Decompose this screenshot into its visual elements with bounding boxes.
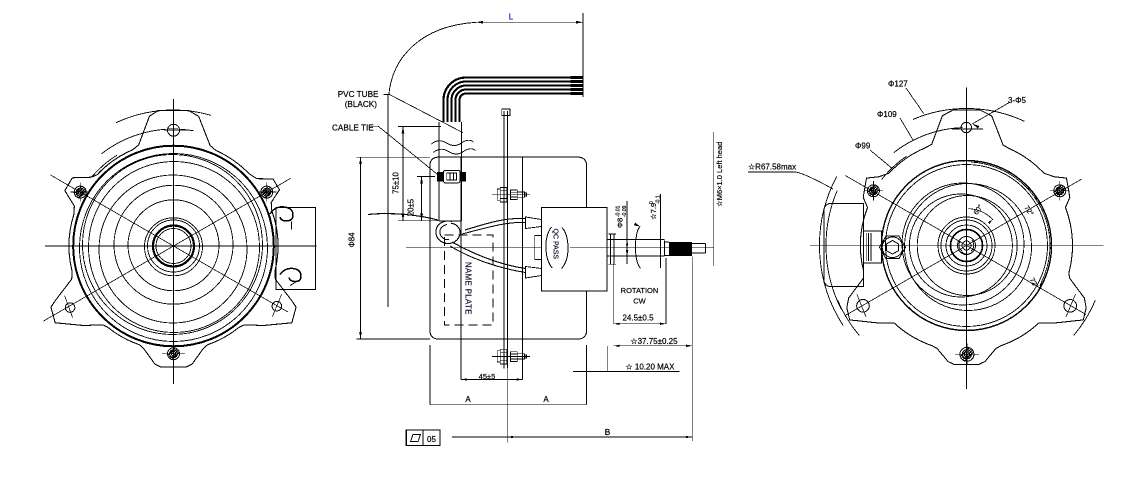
bracket top cap xyxy=(502,109,510,115)
leader phi109 xyxy=(900,118,913,140)
svg-text:A: A xyxy=(465,395,471,404)
svg-text:QC PASS: QC PASS xyxy=(552,229,559,260)
svg-text:-0.1: -0.1 xyxy=(656,195,662,204)
bottom left arc frag xyxy=(838,300,860,335)
motor rim bold circle xyxy=(73,146,274,347)
svg-text:05: 05 xyxy=(427,435,436,444)
cable tie: right block xyxy=(460,172,466,182)
svg-text:☆7.9: ☆7.9 xyxy=(649,203,658,220)
leader R67.58 xyxy=(748,171,796,173)
svg-text:A: A xyxy=(543,395,549,404)
rear hole 210 xyxy=(857,300,870,313)
corner hole 210 xyxy=(65,303,75,313)
leader PVC tube xyxy=(384,94,391,96)
top ear hole xyxy=(168,124,180,136)
10.20 dim xyxy=(606,346,608,372)
motor body rounded rect xyxy=(430,157,587,339)
svg-text:Φ109: Φ109 xyxy=(877,110,897,119)
dim 75+-10 xyxy=(402,127,404,221)
rear mid circles xyxy=(909,194,1012,297)
rear body bold circle xyxy=(882,161,1052,331)
dim 20+-5 xyxy=(421,177,423,221)
svg-text:Φ99: Φ99 xyxy=(855,142,871,151)
mystery vertical extension line xyxy=(387,95,389,307)
L dimension line xyxy=(476,21,583,23)
svg-text:CABLE TIE: CABLE TIE xyxy=(332,124,374,133)
shaft centerline xyxy=(406,247,541,249)
L dimension right extension xyxy=(582,13,584,97)
diagonal centerline 30-210 xyxy=(44,179,291,322)
svg-text:CW: CW xyxy=(633,297,646,306)
rear hole 330 xyxy=(1064,300,1077,313)
diagonal 30-210 right view xyxy=(845,179,1081,316)
45 dim extension lines xyxy=(460,157,462,379)
rear hub circles xyxy=(938,217,995,274)
svg-text:☆R67.58max: ☆R67.58max xyxy=(748,162,796,171)
shaft center detail xyxy=(958,237,976,255)
rotation arrow ellipse xyxy=(635,227,640,269)
dim phi84 xyxy=(360,157,362,339)
svg-text:ROTATION: ROTATION xyxy=(621,286,659,295)
bolt at 270 deg xyxy=(168,348,180,360)
phi127 arc xyxy=(913,108,1024,121)
svg-text:(BLACK): (BLACK) xyxy=(345,100,378,109)
B dim line xyxy=(452,436,692,438)
centerline vertical right view xyxy=(966,88,968,390)
capacitor bracket xyxy=(864,231,882,263)
svg-text:0: 0 xyxy=(649,201,655,204)
all text labels xyxy=(332,13,1040,444)
svg-text:75±10: 75±10 xyxy=(392,172,401,194)
centerline over stator block xyxy=(570,247,714,249)
svg-text:☆M6×1.0 Left head: ☆M6×1.0 Left head xyxy=(715,142,724,207)
leader cable tie xyxy=(371,125,379,127)
centerline horizontal left view xyxy=(45,245,317,247)
name plate dashed rect xyxy=(445,235,494,325)
wire to upper terminal xyxy=(465,218,526,230)
svg-text:-0.09: -0.09 xyxy=(622,205,628,217)
bolt-circle arc fragments left view xyxy=(116,110,211,123)
diagonal centerline 150-330 xyxy=(51,175,288,312)
svg-text:Φ84: Φ84 xyxy=(348,232,357,248)
flange star outline left xyxy=(51,111,296,368)
terminal bracket right of left view xyxy=(276,208,315,290)
terminal lower xyxy=(526,267,542,279)
svg-text:☆37.75±0.25: ☆37.75±0.25 xyxy=(630,337,678,346)
phi109 arc xyxy=(894,128,963,153)
svg-text:20±5: 20±5 xyxy=(407,198,416,216)
svg-text:B: B xyxy=(605,427,611,437)
pvc tube outline xyxy=(438,122,440,221)
capacitor box xyxy=(824,203,864,286)
tube break waves xyxy=(432,140,474,145)
svg-text:45±5: 45±5 xyxy=(479,372,496,381)
A dim box xyxy=(429,345,431,405)
phi99 arc xyxy=(882,156,907,179)
cable tie: left block xyxy=(437,172,443,182)
left view: motor front face xyxy=(44,99,317,384)
angle dim arc 60/72 xyxy=(968,209,993,220)
rear top hole xyxy=(961,122,971,132)
bracket bolt bottom xyxy=(497,351,500,362)
body top edge extension to dim xyxy=(357,156,431,158)
bearing retainer plate xyxy=(610,234,612,264)
svg-text:☆ 10.20 MAX: ☆ 10.20 MAX xyxy=(626,363,676,372)
motor stator block xyxy=(541,207,606,291)
terminal upper xyxy=(526,217,542,229)
svg-text:Φ127: Φ127 xyxy=(888,80,908,89)
middle view: motor side section xyxy=(357,13,714,446)
right view: motor rear face xyxy=(748,88,1103,390)
svg-text:L: L xyxy=(509,13,514,22)
leader phi99 xyxy=(870,150,891,168)
L arrows xyxy=(476,21,483,24)
leader phi127 xyxy=(906,88,924,113)
svg-text:3-Φ5: 3-Φ5 xyxy=(1008,96,1026,105)
shaft thread (black) xyxy=(669,242,692,256)
wire bundle outer sweep arc xyxy=(389,22,476,95)
body bottom edge extension to dim xyxy=(357,338,431,340)
dim 7.9 vertical xyxy=(660,194,662,268)
rotation cw box lines + 24.5 dim xyxy=(613,265,615,324)
wire end terminals (stripped) xyxy=(571,76,584,79)
wire bundle: 5 lead wires xyxy=(444,78,571,123)
bolt at 30 deg xyxy=(261,186,273,198)
svg-text:24.5±0.5: 24.5±0.5 xyxy=(622,314,654,323)
37.75 dim xyxy=(614,345,693,347)
dim M6 vertical xyxy=(713,132,715,266)
R67.58 swing arcs xyxy=(819,177,843,326)
corner hole 330 xyxy=(272,301,282,311)
stator left tab xyxy=(535,235,542,259)
leader 3-phi5 xyxy=(973,102,1010,124)
svg-text:NAME PLATE: NAME PLATE xyxy=(464,262,473,315)
wire going left xyxy=(368,214,438,220)
bracket bolt top xyxy=(497,189,500,200)
lead wire hook top xyxy=(270,207,293,221)
QC PASS stamp oval xyxy=(546,227,553,268)
lead wires inside: loop xyxy=(436,221,460,244)
mounting bracket plate xyxy=(503,111,505,369)
hub circles left view xyxy=(145,218,203,276)
centerline horizontal right view xyxy=(810,245,1103,247)
flatness frame xyxy=(406,430,440,446)
dim phi8 vertical xyxy=(626,201,628,264)
svg-text:-0.01: -0.01 xyxy=(616,205,622,217)
shaft xyxy=(607,239,665,241)
rear bolt 30 xyxy=(1054,185,1066,197)
svg-text:PVC TUBE: PVC TUBE xyxy=(338,90,379,99)
bracket centerline extension xyxy=(506,369,508,443)
bolt at 150 deg xyxy=(74,186,86,198)
hex bolt rear xyxy=(880,236,906,259)
rear bolt 270 xyxy=(960,347,974,361)
diagonal 150-330 right view xyxy=(845,176,1086,315)
shaft tip xyxy=(692,242,706,244)
svg-text:Φ8: Φ8 xyxy=(616,218,625,228)
flange star outline right xyxy=(847,110,1086,364)
45 dim line xyxy=(461,379,523,381)
body circles left view xyxy=(80,154,268,342)
centerline vertical left view xyxy=(173,99,175,384)
cable tie buckle xyxy=(444,170,460,183)
rear bolt 150 xyxy=(867,185,879,197)
wire to lower terminal xyxy=(452,242,526,269)
bottom right arc frag xyxy=(1074,300,1096,335)
lead wire hook bottom xyxy=(280,268,301,281)
